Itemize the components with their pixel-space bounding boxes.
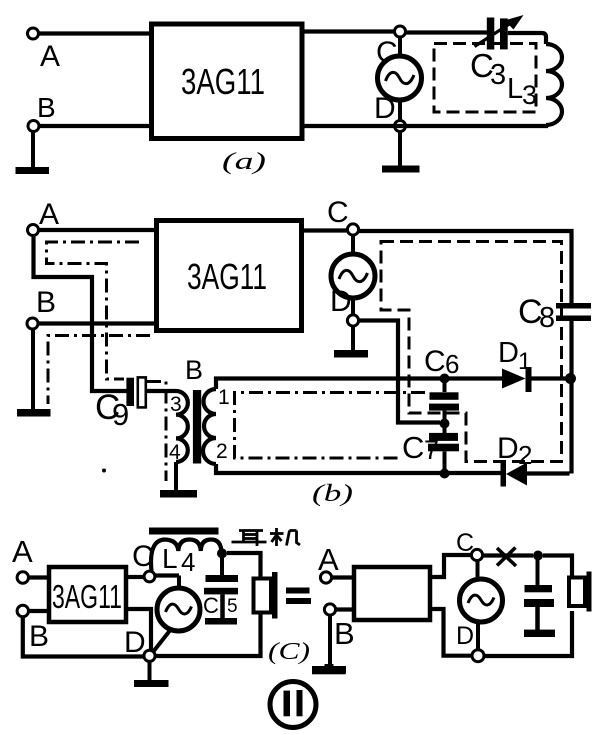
shield dash-dot along B wire	[48, 336, 150, 405]
ground at D (b)	[334, 326, 368, 358]
diode D2	[497, 432, 570, 487]
wire box top to node C (c right)	[430, 555, 471, 577]
svg-text:(a): (a)	[222, 149, 266, 175]
figure number 11 badge	[270, 682, 316, 728]
block 3AG11 (c left)	[49, 567, 126, 622]
terminal B (c left)	[17, 605, 49, 653]
svg-text:C: C	[424, 345, 446, 378]
wire junction to speaker top (c right)	[543, 556, 572, 577]
junction C7 bottom	[440, 469, 450, 479]
svg-text:3: 3	[170, 393, 182, 416]
wire D to C6 C7 midpoint	[359, 321, 441, 423]
wire C9 to transformer	[146, 389, 176, 393]
svg-text:8: 8	[539, 302, 555, 334]
right edge wire below C8	[569, 321, 573, 474]
capacitor C5	[203, 575, 238, 618]
node C (b)	[327, 196, 359, 235]
wire B to box (a)	[39, 124, 150, 128]
wire B down to bottom rail (c left)	[23, 617, 150, 657]
label erji (Chinese)	[232, 528, 301, 546]
terminal A (b)	[28, 198, 60, 236]
svg-text:D: D	[456, 622, 474, 650]
ground below capacitor (c right)	[524, 607, 555, 637]
svg-text:A: A	[318, 542, 339, 577]
svg-text:3: 3	[490, 59, 506, 91]
capacitor (c right)	[524, 585, 554, 607]
capacitor C9	[95, 377, 146, 432]
bottom wire box to coil (a)	[304, 125, 546, 126]
svg-text:D: D	[374, 92, 396, 125]
block 3AG11 (a)	[152, 24, 303, 139]
bottom rail to earphone (c left)	[155, 614, 261, 656]
node C (c right)	[456, 529, 483, 561]
wire junction down to capacitor (c right)	[536, 560, 540, 585]
wire node C to junction (c right)	[483, 553, 534, 557]
junction L4 output (c left)	[217, 548, 227, 558]
svg-text:1: 1	[218, 386, 230, 409]
terminal B (c right)	[324, 604, 354, 651]
wire junction down to C5	[220, 558, 224, 576]
svg-text:9: 9	[112, 397, 129, 432]
svg-text:L: L	[507, 73, 523, 105]
capacitor C7	[402, 428, 459, 474]
inductor L4	[151, 540, 221, 578]
terminal B (a)	[28, 92, 56, 132]
svg-text:C: C	[456, 529, 474, 557]
svg-text:B: B	[37, 92, 56, 123]
wire A to box (c right)	[332, 575, 353, 579]
terminal A (c left)	[12, 534, 33, 583]
svg-text:A: A	[39, 198, 59, 231]
svg-text:D: D	[498, 337, 519, 369]
earphone (c left)	[254, 572, 278, 619]
signal generator (b)	[331, 235, 375, 315]
wire junction to earphone (c left)	[227, 553, 261, 577]
terminal B (b)	[27, 286, 56, 329]
terminal A (a)	[28, 28, 61, 73]
equivalence sign	[286, 588, 311, 605]
node D (c right)	[456, 622, 484, 662]
dashed box around C3 L3	[434, 44, 536, 113]
svg-text:D: D	[497, 432, 519, 465]
svg-text:3AG11: 3AG11	[181, 61, 265, 102]
empty block (c right)	[354, 567, 430, 620]
wire A to box (a)	[39, 31, 151, 35]
wire B to box (c right)	[336, 607, 353, 611]
ground at D (a)	[382, 132, 420, 173]
wire A down to C9	[34, 235, 128, 391]
shield dash-dot box around secondary	[235, 393, 426, 459]
wire C3 to coil (a)	[508, 33, 546, 44]
signal generator (a)	[378, 37, 422, 121]
node D (c left)	[124, 626, 155, 661]
svg-text:B: B	[185, 355, 203, 385]
wire A to box (c left)	[29, 575, 48, 579]
signal generator (c left)	[153, 588, 200, 652]
wire B to box (c left)	[29, 609, 48, 613]
junction (c right)	[533, 551, 543, 561]
shield dash-dot to transformer ground	[147, 382, 166, 482]
ink speck	[102, 469, 106, 473]
svg-text:D: D	[124, 626, 146, 659]
svg-text:B: B	[36, 286, 56, 319]
wire box to node C (c left)	[128, 575, 144, 579]
svg-text:A: A	[12, 534, 33, 569]
ground at B (a)	[16, 132, 50, 175]
node C (c left)	[132, 540, 155, 582]
bottom rail to speaker (c right)	[484, 611, 572, 656]
X mark	[497, 548, 516, 567]
node C (a)	[376, 26, 406, 69]
svg-text:C: C	[327, 196, 349, 229]
wire box bottom to node D (c left)	[128, 609, 151, 651]
node D (b)	[330, 285, 359, 326]
wire A to box (b)	[39, 228, 155, 232]
capacitor C8	[518, 293, 591, 334]
svg-text:5: 5	[227, 596, 238, 617]
svg-text:2: 2	[216, 440, 228, 463]
terminal A (c right)	[318, 542, 339, 583]
signal generator (c right)	[460, 561, 503, 651]
transformer B primary	[169, 355, 203, 464]
transformer ground	[160, 462, 197, 498]
svg-text:3AG11: 3AG11	[52, 578, 122, 615]
inductor L3	[507, 44, 562, 125]
wire box to node C (a)	[304, 29, 395, 33]
ground below C5	[205, 594, 237, 624]
wire node C to gen stub (c left)	[155, 573, 179, 577]
diode D1	[498, 337, 566, 392]
svg-text:A: A	[40, 40, 60, 73]
junction C6 C7 mid	[440, 419, 450, 429]
svg-text:B: B	[29, 620, 49, 653]
svg-text:3AG11: 3AG11	[187, 256, 267, 297]
gen top stub (c left)	[177, 576, 181, 591]
capacitor C6	[424, 345, 459, 419]
svg-text:(C): (C)	[268, 639, 310, 665]
svg-text:4: 4	[169, 441, 181, 464]
junction C6 top	[440, 374, 450, 384]
wire B to box (b)	[38, 321, 154, 325]
ground at B (b)	[17, 329, 51, 417]
transformer core	[193, 390, 201, 464]
svg-text:(b): (b)	[312, 481, 353, 507]
ground at B (c right)	[312, 615, 346, 674]
svg-text:B: B	[334, 616, 355, 651]
svg-text:L: L	[162, 543, 178, 574]
secondary top wire to D1	[216, 379, 502, 390]
block 3AG11 (b)	[157, 221, 302, 331]
node D (a)	[374, 92, 406, 132]
svg-text:2: 2	[518, 440, 532, 470]
speaker (c right)	[569, 572, 592, 612]
svg-text:1: 1	[518, 348, 531, 375]
variable capacitor C3	[470, 15, 524, 91]
ground at D (c left)	[134, 662, 169, 688]
top wire to right edge (b)	[359, 231, 572, 303]
shield dash-dot along A wire	[47, 242, 140, 379]
wire node C to C3 (a)	[406, 30, 488, 34]
svg-text:D: D	[330, 285, 352, 318]
ink artifact mark	[312, 664, 346, 674]
transformer secondary	[203, 386, 230, 464]
big dashed box (b)	[381, 242, 562, 462]
wire box bottom to node D (c right)	[430, 609, 472, 656]
svg-text:C: C	[203, 593, 219, 618]
svg-text:C: C	[402, 430, 424, 465]
svg-text:4: 4	[181, 547, 195, 577]
junction right edge	[565, 373, 576, 384]
wire box to node C (b)	[304, 228, 348, 232]
secondary bottom wire to D2	[216, 464, 501, 473]
ferrite bar above L4	[149, 528, 219, 535]
svg-text:7: 7	[424, 435, 439, 465]
